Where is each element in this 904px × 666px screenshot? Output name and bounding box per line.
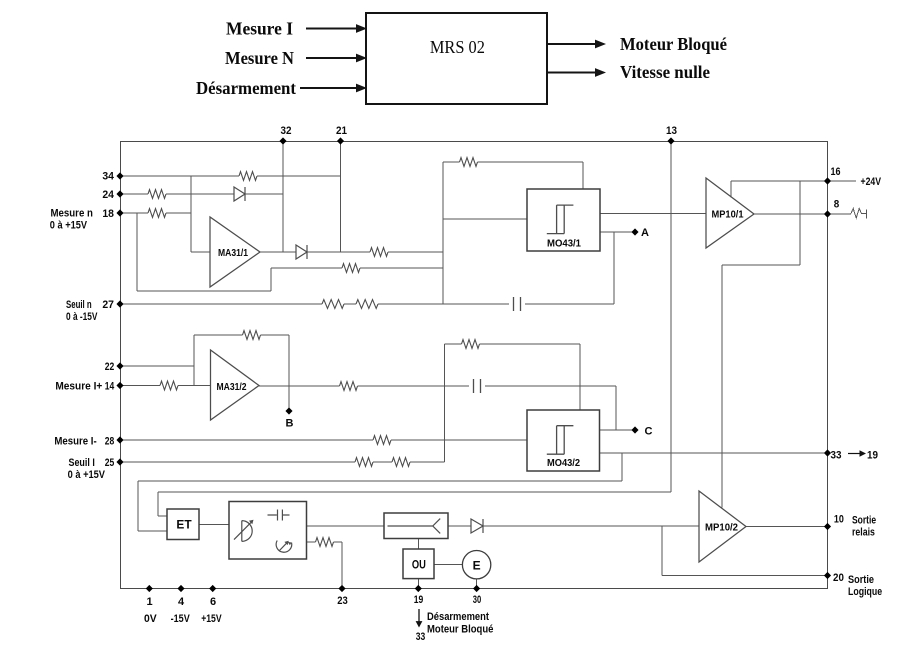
svg-text:Vitesse nulle: Vitesse nulle [620, 62, 710, 82]
svg-text:27: 27 [102, 299, 114, 311]
svg-text:+24V: +24V [861, 176, 882, 188]
svg-text:OU: OU [412, 558, 426, 572]
svg-text:30: 30 [473, 594, 482, 606]
svg-text:MRS 02: MRS 02 [430, 37, 485, 57]
svg-text:23: 23 [337, 595, 348, 607]
svg-text:28: 28 [105, 436, 115, 448]
svg-text:0 à -15V: 0 à -15V [66, 311, 98, 323]
svg-text:34: 34 [102, 171, 114, 183]
svg-text:E: E [473, 559, 481, 573]
svg-text:14: 14 [105, 381, 115, 393]
svg-text:Sortie: Sortie [848, 574, 874, 586]
svg-text:25: 25 [105, 457, 115, 469]
svg-text:33: 33 [416, 631, 426, 643]
svg-text:Moteur Bloqué: Moteur Bloqué [620, 34, 727, 54]
svg-text:Désarmement: Désarmement [196, 78, 296, 98]
svg-text:22: 22 [105, 361, 115, 373]
svg-text:10: 10 [834, 514, 844, 526]
svg-text:MO43/1: MO43/1 [547, 238, 581, 250]
svg-text:20: 20 [833, 572, 844, 584]
svg-text:Désarmement: Désarmement [427, 611, 489, 623]
svg-text:16: 16 [831, 166, 841, 178]
svg-text:19: 19 [414, 594, 424, 606]
svg-text:19: 19 [867, 450, 878, 462]
svg-text:24: 24 [102, 189, 114, 201]
svg-text:Mesure I+: Mesure I+ [55, 381, 102, 393]
svg-text:21: 21 [336, 125, 347, 137]
svg-text:Seuil n: Seuil n [66, 299, 92, 311]
svg-text:-15V: -15V [171, 613, 191, 625]
svg-text:Logique: Logique [848, 586, 882, 598]
svg-text:A: A [641, 227, 649, 239]
svg-text:Seuil I: Seuil I [69, 457, 95, 469]
svg-text:B: B [286, 418, 294, 430]
svg-text:0V: 0V [144, 613, 157, 625]
svg-text:Sortie: Sortie [852, 515, 876, 527]
svg-text:13: 13 [666, 125, 677, 137]
svg-text:33: 33 [831, 450, 842, 462]
svg-text:0 à +15V: 0 à +15V [50, 220, 88, 232]
svg-text:MP10/2: MP10/2 [705, 522, 738, 534]
svg-text:6: 6 [210, 596, 216, 608]
svg-text:4: 4 [178, 596, 185, 608]
svg-text:MO43/2: MO43/2 [547, 457, 580, 469]
svg-text:8: 8 [834, 199, 840, 211]
svg-text:MP10/1: MP10/1 [712, 209, 744, 221]
svg-text:1: 1 [146, 596, 152, 608]
svg-text:18: 18 [102, 208, 114, 220]
svg-text:ET: ET [176, 518, 192, 532]
svg-text:MA31/1: MA31/1 [218, 247, 248, 259]
svg-text:Mesure I-: Mesure I- [54, 436, 97, 448]
svg-text:relais: relais [852, 527, 875, 539]
svg-text:+15V: +15V [201, 613, 222, 625]
svg-text:C: C [645, 426, 653, 438]
svg-text:Moteur Bloqué: Moteur Bloqué [427, 624, 493, 636]
svg-text:32: 32 [281, 125, 292, 137]
svg-text:Mesure I: Mesure I [226, 19, 293, 39]
svg-text:MA31/2: MA31/2 [217, 381, 247, 393]
svg-text:Mesure N: Mesure N [225, 48, 294, 68]
svg-text:Mesure n: Mesure n [51, 208, 94, 220]
svg-text:0 à +15V: 0 à +15V [68, 469, 106, 481]
